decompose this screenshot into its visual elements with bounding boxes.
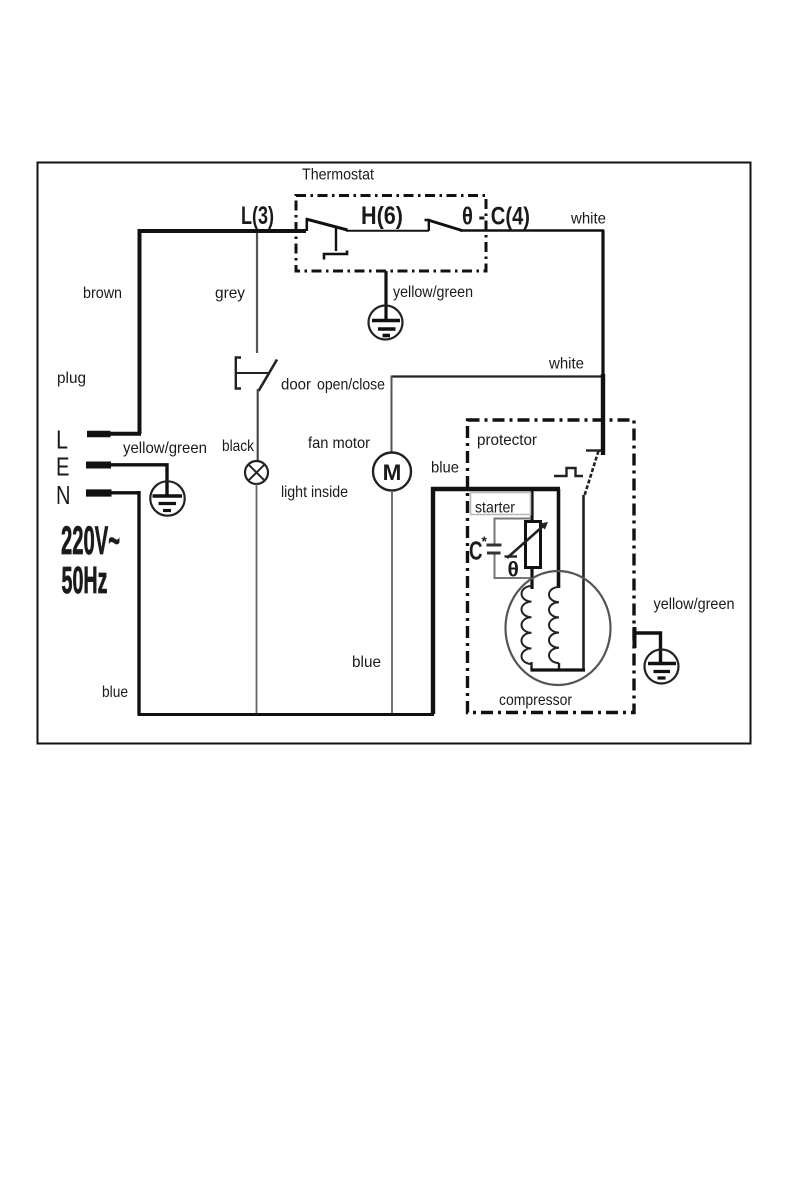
svg-text:white: white — [570, 211, 606, 228]
svg-text:blue: blue — [102, 684, 128, 701]
svg-text:white: white — [548, 356, 584, 373]
svg-text:blue: blue — [431, 460, 459, 477]
svg-text:*: * — [482, 533, 488, 549]
svg-text:θ: θ — [508, 559, 519, 582]
svg-text:brown: brown — [83, 285, 122, 302]
svg-text:50Hz: 50Hz — [62, 560, 108, 602]
svg-text:M: M — [383, 460, 402, 485]
svg-text:H(6): H(6) — [361, 202, 403, 230]
svg-text:Thermostat: Thermostat — [302, 167, 374, 184]
svg-text:N: N — [56, 480, 71, 510]
svg-text:yellow/green: yellow/green — [123, 440, 207, 457]
svg-text:yellow/green: yellow/green — [654, 596, 735, 613]
svg-text:L: L — [56, 425, 68, 455]
svg-text:grey: grey — [215, 285, 245, 302]
svg-text:θ - C(4): θ - C(4) — [462, 203, 530, 231]
svg-text:door: door — [281, 377, 312, 394]
svg-text:L(3): L(3) — [241, 202, 274, 230]
svg-text:protector: protector — [477, 432, 538, 449]
svg-text:220V~: 220V~ — [61, 519, 120, 563]
svg-text:plug: plug — [57, 370, 86, 387]
svg-text:blue: blue — [352, 654, 381, 671]
svg-text:fan motor: fan motor — [308, 435, 371, 452]
svg-text:yellow/green: yellow/green — [393, 284, 473, 301]
svg-text:black: black — [222, 438, 255, 455]
svg-text:E: E — [56, 452, 70, 482]
svg-text:starter: starter — [475, 500, 516, 517]
svg-text:light inside: light inside — [281, 484, 348, 501]
svg-text:open/close: open/close — [317, 377, 385, 394]
svg-text:compressor: compressor — [499, 692, 573, 709]
